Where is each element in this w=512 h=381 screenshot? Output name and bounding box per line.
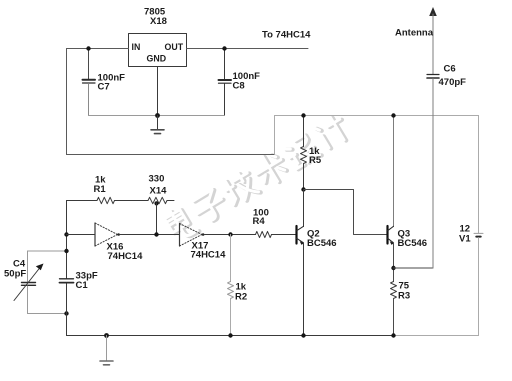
wire top rail (right) bbox=[275, 115, 479, 117]
capacitor C4 (variable) bbox=[4, 251, 67, 314]
capacitor C1 bbox=[60, 271, 98, 292]
inverter X17 74HC14 bbox=[180, 224, 227, 261]
svg-text:R1: R1 bbox=[94, 184, 107, 195]
wire battery column upper bbox=[478, 116, 480, 234]
svg-text:C6: C6 bbox=[444, 64, 456, 75]
capacitor C7 bbox=[83, 49, 126, 116]
node C4 top tap bbox=[64, 249, 68, 253]
wire Q2 collector feed bbox=[303, 190, 305, 227]
node Q3 emitter / antenna tap bbox=[391, 266, 395, 270]
wire left oscillator column (upper) bbox=[66, 201, 68, 279]
svg-text:OUT: OUT bbox=[165, 42, 184, 52]
node at C7 top bbox=[86, 46, 90, 50]
node R5 bottom bbox=[301, 187, 305, 191]
svg-text:470pF: 470pF bbox=[439, 77, 467, 88]
svg-text:V1: V1 bbox=[459, 234, 471, 245]
regulator U-X18 box bbox=[129, 7, 187, 67]
wire Q2 emitter down bbox=[303, 243, 305, 336]
svg-text:To 74HC14: To 74HC14 bbox=[262, 30, 311, 41]
node R5 top on rail bbox=[301, 113, 305, 117]
ground (regulator) bbox=[151, 116, 164, 134]
wire left oscillator column (lower) bbox=[66, 284, 68, 336]
node R3 bottom bbox=[391, 333, 395, 337]
capacitor C6 bbox=[427, 64, 466, 269]
wire antenna coupling bbox=[394, 267, 434, 269]
svg-text:74HC14: 74HC14 bbox=[108, 251, 144, 262]
node X17 output / R2 tap bbox=[228, 232, 232, 236]
wire supply bottom run bbox=[67, 154, 275, 156]
inverter X16 74HC14 bbox=[95, 223, 143, 262]
resistor R1 bbox=[67, 175, 149, 204]
wire battery column lower bbox=[478, 238, 480, 336]
svg-text:330: 330 bbox=[149, 174, 165, 185]
wire X17 output bbox=[205, 234, 256, 236]
wire regulator output to To-74HC14 stub bbox=[187, 48, 309, 50]
wire left supply column bbox=[66, 49, 68, 155]
svg-text:R4: R4 bbox=[253, 216, 266, 227]
resistor R3 bbox=[391, 281, 411, 336]
wire Q3 collector feed bbox=[393, 116, 395, 227]
wire R5 node to Q3 base bbox=[304, 190, 388, 235]
svg-text:R2: R2 bbox=[235, 292, 247, 303]
wire X14 tap down to gate output line bbox=[156, 203, 158, 235]
ground (main) bbox=[100, 336, 113, 365]
node below X14 bbox=[154, 201, 158, 205]
svg-text:BC546: BC546 bbox=[307, 238, 337, 249]
wire Q3 emitter down bbox=[393, 243, 395, 282]
node X16 input bbox=[64, 232, 68, 236]
wire riser to top rail bbox=[274, 116, 276, 155]
svg-text:C8: C8 bbox=[233, 81, 245, 92]
wire regulator GND pin bbox=[157, 67, 159, 116]
node R2 bottom bbox=[228, 333, 232, 337]
svg-text:X14: X14 bbox=[150, 186, 168, 197]
svg-text:74HC14: 74HC14 bbox=[191, 250, 227, 261]
node Q3 collector on rail bbox=[391, 113, 395, 117]
node regulator ground bbox=[155, 113, 160, 118]
wire bottom rail bbox=[67, 335, 394, 337]
node Q2 emitter bottom bbox=[301, 333, 305, 337]
svg-text:Antenna: Antenna bbox=[395, 28, 434, 39]
svg-text:X18: X18 bbox=[150, 16, 167, 27]
transistor Q2 BC546 bbox=[297, 226, 337, 249]
watermark (decorative) bbox=[163, 112, 352, 243]
transistor Q3 BC546 bbox=[388, 226, 428, 249]
node at C8 top bbox=[222, 46, 226, 50]
resistor R4 bbox=[253, 208, 296, 238]
svg-text:IN: IN bbox=[132, 42, 141, 52]
node C4 bottom tap bbox=[64, 311, 68, 315]
resistor R2 bbox=[228, 235, 248, 336]
svg-text:C1: C1 bbox=[76, 280, 89, 291]
wire regulator input (left) bbox=[67, 48, 129, 50]
svg-text:R3: R3 bbox=[398, 291, 410, 302]
capacitor C8 bbox=[219, 49, 261, 116]
resistor X14 bbox=[148, 174, 174, 204]
svg-text:R5: R5 bbox=[309, 155, 322, 166]
svg-text:GND: GND bbox=[147, 54, 167, 64]
wire bottom rail (right, to battery) bbox=[394, 335, 479, 337]
battery V1 bbox=[459, 224, 483, 245]
node X16 output / X14 tap bbox=[154, 232, 158, 236]
svg-text:C7: C7 bbox=[98, 82, 110, 93]
antenna bbox=[395, 7, 437, 74]
wire X16 output bbox=[120, 234, 180, 236]
wire X16 input bbox=[67, 234, 96, 236]
svg-text:BC546: BC546 bbox=[398, 238, 428, 249]
node ground tap bbox=[104, 333, 109, 338]
svg-text:50pF: 50pF bbox=[4, 269, 26, 280]
resistor R5 bbox=[301, 116, 322, 190]
wire regulator ground rail bbox=[89, 115, 225, 117]
